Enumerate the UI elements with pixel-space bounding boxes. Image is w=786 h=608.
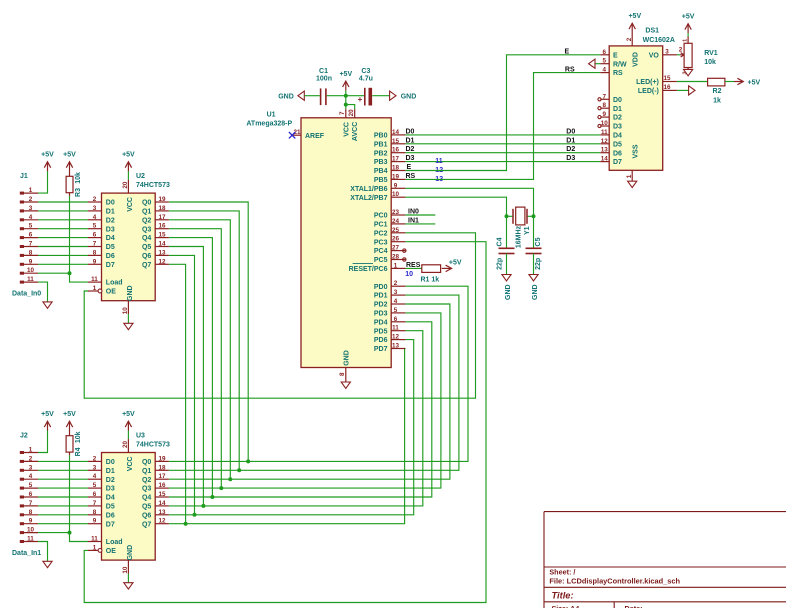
svg-text:19: 19 bbox=[158, 196, 166, 203]
svg-text:Q4: Q4 bbox=[142, 495, 151, 502]
svg-text:D3: D3 bbox=[106, 226, 115, 233]
svg-text:D0: D0 bbox=[106, 459, 115, 466]
svg-text:R3: R3 bbox=[75, 188, 82, 197]
svg-text:10k: 10k bbox=[75, 431, 82, 443]
svg-text:PD3: PD3 bbox=[374, 311, 388, 318]
svg-text:D4: D4 bbox=[106, 495, 115, 502]
svg-text:E: E bbox=[613, 52, 618, 59]
svg-text:5: 5 bbox=[603, 58, 607, 65]
svg-text:9: 9 bbox=[603, 111, 607, 118]
svg-text:9: 9 bbox=[93, 258, 97, 265]
svg-text:15: 15 bbox=[158, 491, 166, 498]
svg-text:14: 14 bbox=[392, 129, 400, 136]
svg-text:Title:: Title: bbox=[552, 590, 574, 600]
svg-text:74HCT573: 74HCT573 bbox=[136, 182, 170, 189]
svg-text:2: 2 bbox=[679, 47, 683, 54]
svg-text:1: 1 bbox=[93, 285, 97, 292]
svg-text:VO: VO bbox=[649, 52, 660, 59]
svg-text:22p: 22p bbox=[496, 258, 503, 270]
svg-text:8: 8 bbox=[603, 102, 607, 109]
svg-text:9: 9 bbox=[394, 182, 398, 189]
svg-text:R4: R4 bbox=[75, 447, 82, 456]
svg-text:D4: D4 bbox=[106, 235, 115, 242]
svg-text:4: 4 bbox=[394, 298, 398, 305]
svg-text:3: 3 bbox=[29, 464, 33, 471]
svg-text:2: 2 bbox=[93, 455, 97, 462]
svg-text:100n: 100n bbox=[316, 76, 332, 83]
svg-text:16: 16 bbox=[158, 223, 166, 230]
svg-text:D5: D5 bbox=[613, 141, 622, 148]
svg-text:RV1: RV1 bbox=[704, 50, 718, 57]
svg-text:PB5: PB5 bbox=[374, 177, 388, 184]
svg-text:7: 7 bbox=[93, 500, 97, 507]
svg-text:11: 11 bbox=[435, 158, 443, 165]
svg-text:24: 24 bbox=[392, 218, 400, 225]
svg-text:PD0: PD0 bbox=[374, 284, 388, 291]
svg-text:12: 12 bbox=[158, 518, 166, 525]
svg-text:1: 1 bbox=[93, 544, 97, 551]
svg-text:3: 3 bbox=[29, 205, 33, 212]
svg-text:10: 10 bbox=[392, 191, 400, 198]
svg-text:PC3: PC3 bbox=[374, 239, 388, 246]
svg-text:Q3: Q3 bbox=[142, 226, 151, 233]
svg-text:16: 16 bbox=[158, 482, 166, 489]
svg-text:7: 7 bbox=[29, 241, 33, 248]
svg-text:D3: D3 bbox=[613, 124, 622, 131]
svg-text:11: 11 bbox=[392, 325, 399, 332]
svg-text:10: 10 bbox=[405, 271, 413, 278]
svg-text:27: 27 bbox=[392, 245, 400, 252]
svg-text:17: 17 bbox=[158, 473, 166, 480]
svg-text:13: 13 bbox=[158, 249, 166, 256]
svg-text:26: 26 bbox=[392, 236, 400, 243]
svg-text:10k: 10k bbox=[704, 59, 716, 66]
svg-text:Q1: Q1 bbox=[142, 209, 151, 216]
svg-text:9: 9 bbox=[29, 258, 33, 265]
svg-text:4: 4 bbox=[29, 473, 33, 480]
svg-text:OE: OE bbox=[106, 548, 116, 555]
svg-text:E: E bbox=[407, 164, 412, 171]
svg-text:PD2: PD2 bbox=[374, 302, 388, 309]
svg-text:Data_In0: Data_In0 bbox=[12, 290, 41, 297]
svg-text:Load: Load bbox=[106, 539, 123, 546]
svg-text:D1: D1 bbox=[566, 137, 575, 144]
svg-text:10k: 10k bbox=[75, 172, 82, 184]
svg-text:4: 4 bbox=[93, 214, 97, 221]
svg-text:Q5: Q5 bbox=[142, 504, 151, 511]
svg-text:Q2: Q2 bbox=[142, 477, 151, 484]
svg-text:3: 3 bbox=[394, 289, 398, 296]
svg-text:5: 5 bbox=[93, 482, 97, 489]
svg-text:PB3: PB3 bbox=[374, 159, 388, 166]
svg-text:11: 11 bbox=[601, 129, 608, 136]
svg-text:XTAL1/PB6: XTAL1/PB6 bbox=[350, 186, 387, 193]
svg-text:D4: D4 bbox=[613, 133, 622, 140]
svg-text:+5V: +5V bbox=[63, 411, 76, 418]
svg-text:4: 4 bbox=[603, 67, 607, 74]
svg-text:18: 18 bbox=[158, 205, 166, 212]
svg-text:D6: D6 bbox=[613, 150, 622, 157]
svg-text:D2: D2 bbox=[106, 477, 115, 484]
svg-text:3: 3 bbox=[93, 205, 97, 212]
svg-text:+5V: +5V bbox=[41, 152, 54, 159]
svg-text:GND: GND bbox=[127, 285, 134, 301]
svg-text:Load: Load bbox=[106, 280, 123, 287]
svg-text:12: 12 bbox=[158, 258, 166, 265]
svg-text:+5V: +5V bbox=[339, 71, 352, 78]
svg-text:10: 10 bbox=[122, 307, 129, 315]
svg-text:D2: D2 bbox=[106, 217, 115, 224]
svg-text:D0: D0 bbox=[106, 200, 115, 207]
svg-text:23: 23 bbox=[392, 209, 400, 216]
svg-text:Q4: Q4 bbox=[142, 235, 151, 242]
svg-text:D1: D1 bbox=[106, 468, 115, 475]
svg-text:6: 6 bbox=[29, 232, 33, 239]
svg-text:GND: GND bbox=[343, 350, 350, 366]
svg-text:XTAL2/PB7: XTAL2/PB7 bbox=[350, 195, 387, 202]
svg-text:1: 1 bbox=[626, 174, 633, 178]
svg-text:PC0: PC0 bbox=[374, 213, 388, 220]
svg-text:6: 6 bbox=[394, 316, 398, 323]
svg-text:+5V: +5V bbox=[628, 13, 641, 20]
svg-text:D5: D5 bbox=[106, 244, 115, 251]
svg-text:2: 2 bbox=[29, 455, 33, 462]
svg-text:8: 8 bbox=[29, 509, 33, 516]
svg-text:15: 15 bbox=[663, 75, 671, 82]
svg-text:5: 5 bbox=[29, 482, 33, 489]
svg-text:R2: R2 bbox=[713, 88, 722, 95]
svg-text:11: 11 bbox=[27, 536, 34, 543]
svg-text:8: 8 bbox=[93, 249, 97, 256]
svg-text:GND: GND bbox=[278, 93, 294, 100]
svg-text:Date:: Date: bbox=[625, 604, 643, 608]
svg-text:C5: C5 bbox=[535, 237, 542, 246]
svg-text:PB0: PB0 bbox=[374, 133, 388, 140]
svg-text:4.7u: 4.7u bbox=[359, 76, 373, 83]
svg-text:Y1: Y1 bbox=[524, 226, 531, 235]
svg-text:6: 6 bbox=[29, 491, 33, 498]
svg-text:J2: J2 bbox=[20, 433, 28, 440]
svg-text:Q0: Q0 bbox=[142, 459, 151, 466]
svg-text:1k: 1k bbox=[713, 98, 721, 105]
svg-text:15: 15 bbox=[392, 138, 400, 145]
svg-text:20: 20 bbox=[348, 109, 355, 117]
svg-text:8: 8 bbox=[93, 509, 97, 516]
svg-text:10: 10 bbox=[27, 527, 35, 534]
svg-text:12: 12 bbox=[601, 138, 609, 145]
svg-text:1: 1 bbox=[29, 187, 33, 194]
svg-text:+5V: +5V bbox=[122, 411, 135, 418]
svg-text:18: 18 bbox=[392, 165, 400, 172]
svg-text:PC1: PC1 bbox=[374, 222, 388, 229]
svg-text:D1: D1 bbox=[106, 209, 115, 216]
svg-text:17: 17 bbox=[158, 214, 166, 221]
svg-text:9: 9 bbox=[29, 518, 33, 525]
svg-text:IN0: IN0 bbox=[408, 208, 419, 215]
svg-text:14: 14 bbox=[601, 156, 609, 163]
svg-text:20: 20 bbox=[122, 181, 129, 189]
svg-text:+5V: +5V bbox=[682, 13, 695, 20]
svg-text:D2: D2 bbox=[566, 146, 575, 153]
svg-text:7: 7 bbox=[93, 241, 97, 248]
svg-text:+: + bbox=[358, 95, 363, 104]
svg-text:13: 13 bbox=[392, 343, 400, 350]
svg-text:+5V: +5V bbox=[449, 260, 462, 267]
svg-text:Q1: Q1 bbox=[142, 468, 151, 475]
svg-text:Q6: Q6 bbox=[142, 253, 151, 260]
svg-text:Q7: Q7 bbox=[142, 521, 151, 528]
svg-text:PD6: PD6 bbox=[374, 337, 388, 344]
svg-text:RS: RS bbox=[565, 66, 575, 73]
svg-text:U2: U2 bbox=[136, 173, 145, 180]
svg-text:5: 5 bbox=[93, 223, 97, 230]
svg-text:+5V: +5V bbox=[63, 152, 76, 159]
svg-text:VDD: VDD bbox=[633, 52, 640, 67]
svg-text:D0: D0 bbox=[613, 97, 622, 104]
svg-text:3: 3 bbox=[665, 49, 669, 56]
svg-text:1: 1 bbox=[29, 447, 33, 454]
svg-text:D0: D0 bbox=[566, 128, 575, 135]
svg-text:D2: D2 bbox=[613, 115, 622, 122]
svg-text:4: 4 bbox=[29, 214, 33, 221]
svg-text:2: 2 bbox=[29, 196, 33, 203]
svg-text:D2: D2 bbox=[406, 146, 415, 153]
svg-text:+5V: +5V bbox=[122, 152, 135, 159]
svg-text:10: 10 bbox=[27, 267, 35, 274]
svg-text:2: 2 bbox=[93, 196, 97, 203]
svg-text:VCC: VCC bbox=[343, 122, 350, 137]
svg-text:VCC: VCC bbox=[127, 197, 134, 212]
svg-text:4: 4 bbox=[93, 473, 97, 480]
svg-text:11: 11 bbox=[91, 276, 98, 283]
svg-text:U1: U1 bbox=[267, 111, 276, 118]
svg-text:PB2: PB2 bbox=[374, 150, 388, 157]
svg-text:19: 19 bbox=[158, 455, 166, 462]
svg-text:16: 16 bbox=[392, 147, 400, 154]
svg-text:16MHz: 16MHz bbox=[515, 225, 522, 248]
svg-text:74HCT573: 74HCT573 bbox=[136, 441, 170, 448]
svg-text:D1: D1 bbox=[406, 137, 415, 144]
svg-text:6: 6 bbox=[93, 232, 97, 239]
svg-text:C4: C4 bbox=[496, 237, 503, 246]
svg-text:C1: C1 bbox=[319, 68, 328, 75]
svg-text:PD4: PD4 bbox=[374, 319, 388, 326]
svg-text:RS: RS bbox=[613, 70, 623, 77]
svg-text:2: 2 bbox=[626, 37, 633, 41]
svg-text:PB4: PB4 bbox=[374, 168, 388, 175]
svg-text:17: 17 bbox=[392, 156, 400, 163]
svg-text:PC2: PC2 bbox=[374, 230, 388, 237]
svg-text:8: 8 bbox=[29, 249, 33, 256]
svg-text:19: 19 bbox=[392, 173, 400, 180]
svg-text:J1: J1 bbox=[20, 173, 28, 180]
svg-text:GND: GND bbox=[401, 93, 417, 100]
svg-text:IN1: IN1 bbox=[408, 217, 419, 224]
svg-text:Data_In1: Data_In1 bbox=[12, 550, 41, 557]
svg-text:AVCC: AVCC bbox=[352, 122, 359, 141]
svg-text:6: 6 bbox=[603, 49, 607, 56]
svg-text:3: 3 bbox=[93, 464, 97, 471]
svg-text:PC5: PC5 bbox=[374, 257, 388, 264]
svg-text:E: E bbox=[565, 48, 570, 55]
svg-text:LED(+): LED(+) bbox=[636, 79, 659, 86]
svg-text:6: 6 bbox=[93, 491, 97, 498]
svg-text:5: 5 bbox=[394, 307, 398, 314]
svg-text:+5V: +5V bbox=[748, 80, 761, 87]
svg-text:9: 9 bbox=[93, 518, 97, 525]
svg-text:13: 13 bbox=[601, 147, 609, 154]
svg-text:D7: D7 bbox=[613, 159, 622, 166]
svg-text:U3: U3 bbox=[136, 432, 145, 439]
svg-text:GND: GND bbox=[505, 284, 512, 300]
svg-text:D3: D3 bbox=[106, 486, 115, 493]
svg-text:AREF: AREF bbox=[305, 133, 325, 140]
svg-text:D1: D1 bbox=[613, 106, 622, 113]
svg-text:RES: RES bbox=[406, 262, 421, 269]
svg-text:OE: OE bbox=[106, 289, 116, 296]
svg-text:WC1602A: WC1602A bbox=[643, 37, 675, 44]
svg-text:12: 12 bbox=[392, 334, 400, 341]
svg-text:ATmega328-P: ATmega328-P bbox=[246, 120, 292, 127]
svg-text:7: 7 bbox=[603, 93, 607, 100]
svg-text:14: 14 bbox=[158, 500, 166, 507]
svg-text:18: 18 bbox=[158, 464, 166, 471]
svg-text:D5: D5 bbox=[106, 504, 115, 511]
svg-text:11: 11 bbox=[91, 536, 98, 543]
svg-text:Q6: Q6 bbox=[142, 512, 151, 519]
svg-text:C3: C3 bbox=[361, 68, 370, 75]
svg-text:VCC: VCC bbox=[127, 456, 134, 471]
svg-text:VSS: VSS bbox=[633, 144, 640, 158]
svg-text:GND: GND bbox=[127, 545, 134, 561]
svg-text:D6: D6 bbox=[106, 253, 115, 260]
svg-text:D7: D7 bbox=[106, 262, 115, 269]
svg-text:PD1: PD1 bbox=[374, 293, 388, 300]
svg-text:D6: D6 bbox=[106, 512, 115, 519]
svg-text:15: 15 bbox=[158, 232, 166, 239]
svg-text:PD7: PD7 bbox=[374, 346, 388, 353]
svg-text:PD5: PD5 bbox=[374, 328, 388, 335]
svg-text:Q5: Q5 bbox=[142, 244, 151, 251]
svg-text:3: 3 bbox=[683, 71, 689, 74]
svg-text:File: LCDdisplayController.kic: File: LCDdisplayController.kicad_sch bbox=[549, 577, 680, 586]
svg-text:GND: GND bbox=[532, 284, 539, 300]
svg-text:PC4: PC4 bbox=[374, 248, 388, 255]
svg-text:10: 10 bbox=[601, 120, 609, 127]
svg-text:R/W: R/W bbox=[613, 61, 627, 68]
svg-text:14: 14 bbox=[158, 241, 166, 248]
svg-text:Q0: Q0 bbox=[142, 200, 151, 207]
svg-text:D3: D3 bbox=[566, 155, 575, 162]
svg-text:RS: RS bbox=[406, 173, 416, 180]
svg-text:13: 13 bbox=[158, 509, 166, 516]
svg-text:DS1: DS1 bbox=[645, 27, 659, 34]
svg-text:R1 1k: R1 1k bbox=[420, 276, 439, 283]
svg-text:LED(-): LED(-) bbox=[638, 88, 659, 95]
svg-text:11: 11 bbox=[27, 276, 34, 283]
svg-text:5: 5 bbox=[29, 223, 33, 230]
svg-text:28: 28 bbox=[392, 254, 400, 261]
svg-text:7: 7 bbox=[339, 111, 346, 115]
svg-text:D3: D3 bbox=[406, 155, 415, 162]
svg-text:Sheet: /: Sheet: / bbox=[549, 567, 575, 576]
svg-text:10: 10 bbox=[122, 566, 129, 574]
svg-text:RESET/PC6: RESET/PC6 bbox=[349, 266, 388, 273]
svg-text:+5V: +5V bbox=[41, 411, 54, 418]
svg-text:Q3: Q3 bbox=[142, 486, 151, 493]
svg-text:Size: A4: Size: A4 bbox=[552, 604, 580, 608]
svg-text:16: 16 bbox=[663, 84, 671, 91]
svg-text:2: 2 bbox=[394, 280, 398, 287]
svg-text:22p: 22p bbox=[535, 258, 542, 270]
svg-text:1: 1 bbox=[683, 39, 689, 42]
svg-text:7: 7 bbox=[29, 500, 33, 507]
svg-text:8: 8 bbox=[339, 372, 346, 376]
svg-text:25: 25 bbox=[392, 227, 400, 234]
svg-text:D7: D7 bbox=[106, 521, 115, 528]
svg-text:Q7: Q7 bbox=[142, 262, 151, 269]
svg-text:20: 20 bbox=[122, 441, 129, 449]
svg-text:D0: D0 bbox=[406, 128, 415, 135]
svg-text:1: 1 bbox=[394, 262, 398, 269]
svg-text:Q2: Q2 bbox=[142, 217, 151, 224]
svg-text:PB1: PB1 bbox=[374, 141, 388, 148]
